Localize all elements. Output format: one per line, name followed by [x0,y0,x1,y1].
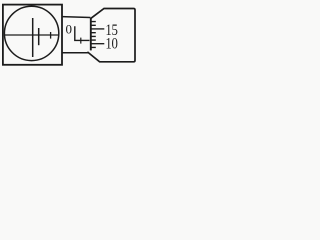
top wire [62,16,90,19]
comb edge [90,18,92,50]
elbow wire from 0 terminal [75,26,90,40]
plug outline [87,9,135,62]
svg-text:10: 10 [105,35,117,52]
horizontal line through circle [5,34,59,36]
long plate [32,18,34,57]
comb tick long to 10 [91,43,105,45]
tick on elbow [80,38,82,44]
comb ticks short [91,22,96,48]
device circle [4,6,58,60]
small tick on line [50,32,52,39]
bottom wire [62,52,88,54]
short plate [38,28,40,45]
comb tick long to 15 [91,28,105,30]
enclosure box [3,5,62,65]
svg-text:0: 0 [66,21,73,36]
